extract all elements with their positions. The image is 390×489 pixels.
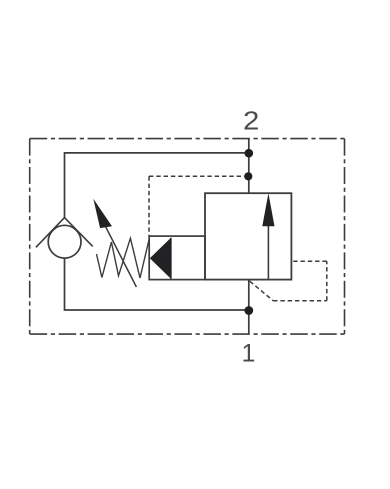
boundary envelope: right edge xyxy=(344,139,346,335)
wire: port 2 vertical line (border to main box) xyxy=(248,139,250,194)
boundary envelope: left edge xyxy=(29,139,31,335)
junction dot: port 1 branch xyxy=(244,306,253,315)
check valve CV1: ball (circle) xyxy=(48,225,81,258)
pilot drain line (dashed): bottom horizontal xyxy=(273,300,327,302)
pilot triangle base line xyxy=(170,238,172,279)
junction dot: upper (solid line on port 2 branch) xyxy=(245,149,254,158)
boundary envelope: bottom edge xyxy=(30,333,345,335)
wire: port 1 vertical line (main box to border) xyxy=(248,280,250,335)
wire: top horizontal line from check valve branch xyxy=(65,152,249,154)
pilot drain line (dashed): top horizontal into main box xyxy=(291,260,326,262)
junction dot: pilot line on port 2 branch xyxy=(244,172,252,180)
boundary envelope: top edge (dashed cartridge outline) xyxy=(30,138,345,140)
pilot line (dashed): vertical down to pilot box xyxy=(148,176,150,236)
pilot control box (solenoid-style section) xyxy=(149,236,205,280)
svg-text:2: 2 xyxy=(243,106,259,135)
pilot drain line (dashed): diagonal from port 1 line xyxy=(250,281,273,301)
wire: left vertical line below check valve xyxy=(64,258,66,310)
main valve box xyxy=(205,193,291,279)
pilot control triangle (filled, pointing left) xyxy=(150,238,171,279)
check valve CV1: seat (V) xyxy=(36,218,93,248)
pilot line (dashed): horizontal to upper junction xyxy=(149,175,245,177)
flow arrow head (filled, pointing up) xyxy=(262,193,274,226)
port 2 label xyxy=(243,106,259,135)
pilot drain line (dashed): right vertical xyxy=(326,261,328,301)
wire: left vertical line down to check valve xyxy=(64,152,66,219)
adjustment arrow head (filled) xyxy=(93,199,112,228)
adjustment arrow shaft xyxy=(105,225,137,288)
svg-text:1: 1 xyxy=(242,340,256,368)
wire: bottom horizontal line to port 1 junction xyxy=(64,309,249,311)
flow arrow shaft (inside main box) xyxy=(267,220,269,280)
spring (adjustable relief spring) xyxy=(97,238,150,278)
